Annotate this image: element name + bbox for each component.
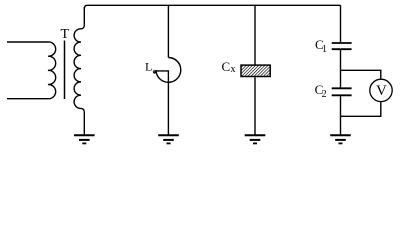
svg-text:2: 2 bbox=[322, 89, 327, 100]
transformer T core bbox=[64, 41, 66, 100]
transformer T primary winding bbox=[48, 42, 56, 99]
ground (right branch) bbox=[330, 135, 351, 143]
capacitor C2 plates bbox=[332, 88, 352, 95]
wire Cx branch vertical top bbox=[254, 5, 256, 64]
wire C1 to C2 vertical bbox=[340, 49, 342, 88]
svg-text:V: V bbox=[376, 83, 387, 99]
wire top rail bbox=[84, 5, 340, 9]
transformer T secondary winding bbox=[74, 7, 84, 112]
wire secondary to ground bbox=[83, 112, 85, 136]
ground (Cx branch) bbox=[245, 135, 266, 143]
wire voltmeter branch top bbox=[341, 70, 381, 79]
capacitor C1 plates bbox=[332, 43, 352, 49]
transformer T primary bottom lead bbox=[7, 98, 48, 100]
wire Cx branch vertical bottom bbox=[254, 77, 256, 135]
wire voltmeter branch bottom bbox=[341, 102, 381, 117]
wire C2 to ground bbox=[340, 95, 342, 135]
svg-text:T: T bbox=[61, 27, 70, 42]
wire right branch vertical C1 lead bbox=[340, 5, 342, 43]
ground (transformer secondary) bbox=[74, 135, 95, 143]
inductor loop L tap wire bbox=[153, 71, 168, 135]
capacitor Cx hatched body bbox=[241, 65, 270, 76]
voltmeter V circle bbox=[370, 79, 392, 101]
svg-text:L: L bbox=[145, 60, 152, 74]
inductor loop L arc bbox=[153, 58, 180, 83]
svg-text:1: 1 bbox=[322, 44, 327, 55]
wire L branch vertical top bbox=[167, 5, 169, 57]
transformer T primary top lead bbox=[7, 41, 48, 43]
svg-text:C: C bbox=[222, 59, 231, 74]
svg-text:x: x bbox=[231, 64, 236, 75]
ground (L branch) bbox=[158, 135, 179, 143]
